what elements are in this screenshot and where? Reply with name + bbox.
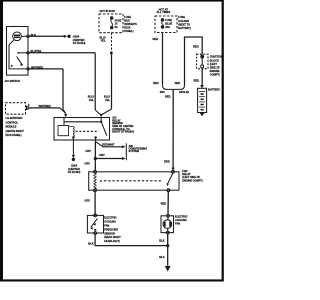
wire label BLU/YEL — [104, 95, 110, 102]
svg-text:COOLING: COOLING — [175, 218, 187, 222]
wire WHT/RED from t3 — [29, 68, 63, 70]
svg-text:BLUE: BLUE — [165, 21, 172, 25]
label FUSE HOLDER — [178, 15, 191, 30]
pressure sensor box — [87, 215, 103, 233]
svg-text:SIDE OF: SIDE OF — [210, 66, 220, 70]
fan relay coil terminal bottom — [94, 189, 97, 192]
arrow on switch common — [10, 65, 13, 67]
relay ground wire — [72, 140, 74, 155]
fan relay coil terminal top — [94, 170, 97, 173]
svg-text:MODULE: MODULE — [6, 125, 17, 129]
svg-text:FAN: FAN — [104, 224, 109, 228]
svg-text:A/C SWITCH: A/C SWITCH — [5, 79, 21, 83]
svg-text:BLOCK: BLOCK — [210, 58, 219, 62]
svg-text:(NEXT TO: (NEXT TO — [178, 22, 190, 26]
junction dot — [166, 244, 169, 247]
svg-text:RED/WHT: RED/WHT — [102, 142, 115, 146]
svg-text:BLU/: BLU/ — [88, 95, 94, 99]
svg-text:(NEAR RIGHT: (NEAR RIGHT — [104, 235, 121, 239]
wire RED from splice to fan relay — [172, 89, 174, 170]
terminal t2 — [27, 52, 29, 54]
svg-text:S301-92: S301-92 — [179, 90, 189, 94]
interior rail — [64, 121, 101, 123]
svg-text:PANEL): PANEL) — [124, 29, 133, 33]
svg-text:RED: RED — [153, 81, 159, 85]
sensor blade — [91, 218, 98, 227]
svg-text:YEL: YEL — [105, 98, 110, 102]
label FAN RELAY — [182, 169, 202, 183]
svg-text:BATTERY: BATTERY — [208, 87, 220, 91]
relay coil ground arrow — [72, 137, 75, 140]
svg-text:OF DASH): OF DASH) — [68, 170, 81, 174]
label LH-JETRONIC CONTROL MODULE — [6, 116, 25, 137]
svg-text:FUSE: FUSE — [124, 15, 131, 19]
svg-text:LH-JETRONIC: LH-JETRONIC — [6, 116, 23, 120]
ground point dot — [67, 35, 70, 38]
svg-text:RED: RED — [161, 202, 167, 206]
svg-text:(CENTER: (CENTER — [68, 167, 80, 171]
svg-text:RED: RED — [193, 44, 199, 48]
svg-text:RIGHT OF RADIO): RIGHT OF RADIO) — [112, 130, 134, 134]
label ELECTRIC COOLING FAN — [175, 214, 188, 225]
svg-text:YEL: YEL — [89, 98, 94, 102]
svg-text:COOLING: COOLING — [104, 220, 116, 224]
arrow to ground ref — [64, 35, 67, 38]
svg-text:FAN: FAN — [175, 222, 180, 226]
svg-text:KICK: KICK — [124, 25, 130, 29]
svg-text:KICK PANEL): KICK PANEL) — [6, 133, 22, 137]
relay coil body — [63, 118, 65, 126]
ground point dot G204 — [72, 158, 75, 161]
fuse F12 — [111, 17, 113, 19]
svg-text:WHT/RED: WHT/RED — [31, 65, 43, 69]
fan relay blade — [167, 174, 173, 185]
relay blade — [101, 122, 107, 136]
wire BLU/YEL right vertical — [111, 54, 113, 109]
svg-text:G204: G204 — [73, 34, 80, 38]
svg-text:BATTERY): BATTERY) — [178, 26, 191, 30]
svg-text:HOT IN RUN: HOT IN RUN — [100, 9, 115, 13]
svg-text:(ABOVE RIGHT: (ABOVE RIGHT — [6, 129, 25, 133]
junction dot — [94, 157, 97, 160]
svg-text:HOLDER: HOLDER — [178, 19, 189, 23]
relay winding — [72, 126, 75, 136]
svg-text:RED: RED — [165, 94, 171, 98]
illumination lamp — [13, 32, 22, 41]
value label FUSE BLUE 20A — [165, 18, 172, 29]
svg-text:ENGINE COMPT): ENGINE COMPT) — [182, 178, 202, 182]
label JUNCTION BLOCK — [210, 55, 223, 77]
net label HOT AT ALL TIMES — [157, 7, 171, 14]
svg-text:RED: RED — [164, 160, 170, 164]
wire label BLU/YEL — [88, 95, 94, 102]
svg-text:5A: 5A — [115, 25, 118, 29]
svg-text:ENGINE: ENGINE — [210, 69, 220, 73]
svg-text:6: 6 — [28, 103, 30, 107]
wire WHT/RED from module — [29, 107, 60, 109]
wire BLU/YEL from t2 — [29, 52, 95, 54]
wire BLK from sensor — [95, 234, 168, 245]
fan relay coil winding — [94, 173, 96, 189]
svg-text:HEADLIGHT): HEADLIGHT) — [104, 239, 120, 243]
svg-text:FUSE: FUSE — [178, 15, 185, 19]
terminal t1 — [27, 35, 29, 37]
wire BLK from motor — [167, 234, 169, 266]
relay pivot dot — [100, 121, 102, 123]
svg-text:BLU/YEL: BLU/YEL — [30, 49, 42, 53]
module terminal pin 6 — [26, 106, 27, 109]
fuse blue 25A — [161, 19, 163, 21]
svg-text:ELECTRIC: ELECTRIC — [104, 216, 117, 220]
battery ground — [200, 113, 205, 116]
relay output contact arrow — [94, 137, 97, 140]
t2 stub — [19, 52, 27, 54]
relay actuation dashed link — [76, 130, 99, 132]
label FUSE BOX — [124, 15, 137, 33]
wire vertical BLU/YEL left — [94, 53, 96, 110]
electric cooling fan motor box — [161, 216, 174, 233]
fan relay switch terminal top — [172, 170, 175, 173]
svg-text:BLK: BLK — [88, 241, 93, 245]
svg-text:S63: S63 — [160, 90, 165, 94]
svg-text:SYSTEM: SYSTEM — [129, 149, 139, 153]
wire RED from fan relay to motor — [167, 192, 169, 215]
wire BLU/YEL from fuse (dashed segment) — [111, 33, 113, 52]
arrow into relay coil terminal — [100, 114, 103, 118]
terminal t3 — [27, 68, 29, 70]
motor M1 — [163, 220, 172, 229]
ground G101 — [165, 266, 171, 272]
svg-text:RED: RED — [193, 78, 199, 82]
svg-text:YEL: YEL — [101, 39, 106, 43]
svg-text:BOX: BOX — [124, 18, 130, 22]
A/C relay K1 box — [54, 118, 110, 141]
wire lamp to t1 — [22, 35, 27, 37]
junction block dashed box — [197, 54, 208, 69]
svg-text:ALL TIMES: ALL TIMES — [157, 10, 171, 14]
svg-text:BLK: BLK — [31, 33, 36, 37]
svg-text:CONTROL: CONTROL — [6, 120, 19, 124]
battery — [198, 88, 207, 112]
svg-text:OF DASH): OF DASH) — [73, 41, 86, 45]
svg-text:GRY: GRY — [84, 162, 90, 166]
label AIR CONDITIONING SYSTEM — [129, 144, 148, 153]
svg-text:PRESSURE: PRESSURE — [104, 227, 118, 231]
wire RED to battery — [201, 68, 203, 86]
wire RED from fuse holder — [162, 33, 164, 86]
svg-text:BLU/: BLU/ — [100, 35, 106, 39]
fan relay actuation dashed link — [100, 180, 161, 182]
LH-Jetronic control module dashed box — [6, 103, 26, 115]
wire vertical from t3 — [63, 69, 66, 114]
wire RED riser to junction block — [185, 37, 203, 86]
svg-text:ELECTRIC: ELECTRIC — [175, 214, 188, 218]
svg-text:(LEFT: (LEFT — [210, 62, 218, 66]
fuse box dashed (driver's kick panel) — [99, 14, 123, 33]
svg-text:20A: 20A — [165, 25, 170, 29]
svg-text:RED: RED — [175, 81, 181, 85]
svg-text:GRY: GRY — [84, 199, 90, 203]
wire BLK from t1 — [29, 35, 64, 37]
switch blade — [17, 57, 23, 66]
svg-text:BLK: BLK — [159, 238, 164, 242]
svg-text:G204: G204 — [71, 163, 78, 167]
svg-text:RED: RED — [152, 37, 158, 41]
A/C system bracket — [125, 143, 127, 160]
wire labels RED RED, splice names S63 S301-92 — [153, 81, 189, 94]
label G204 (CENTER OF DASH) — [73, 34, 86, 45]
svg-text:BLK: BLK — [159, 255, 164, 259]
wire GRY branch to A/C system — [95, 158, 123, 160]
wire GRY to pressure sensor — [94, 192, 96, 216]
arrow into relay left terminal — [64, 114, 67, 118]
svg-text:(CENTER: (CENTER — [73, 38, 85, 42]
svg-text:COMPT): COMPT) — [210, 73, 220, 77]
lamp ground-side wire — [9, 40, 27, 69]
svg-text:(DRIVER'S: (DRIVER'S — [124, 22, 137, 26]
label A/C RELAY — [112, 116, 134, 134]
wire GRY down from relay — [94, 142, 96, 171]
fuse holder dashed box — [155, 16, 177, 33]
wire label BLU/YEL — [100, 35, 106, 42]
svg-text:GRY: GRY — [85, 149, 91, 153]
svg-text:BLU/: BLU/ — [104, 95, 110, 99]
value label FUSE 10 5A — [115, 18, 122, 28]
splice dot — [110, 52, 113, 55]
fan relay switch terminal bottom — [167, 189, 170, 192]
svg-text:GRY: GRY — [99, 153, 105, 157]
label ELECTRIC COOLING FAN PRESSURE SENSOR — [104, 216, 121, 243]
splice S63 — [163, 86, 185, 90]
wire RED/WHT to A/C system — [96, 140, 124, 147]
border frame — [0, 0, 224, 282]
A/C switch S1 box — [7, 27, 29, 76]
svg-text:SENSOR: SENSOR — [104, 231, 115, 235]
svg-text:JUNCTION: JUNCTION — [210, 55, 223, 59]
svg-text:WHT/RED: WHT/RED — [39, 104, 51, 108]
fan relay K2 box — [89, 172, 179, 190]
